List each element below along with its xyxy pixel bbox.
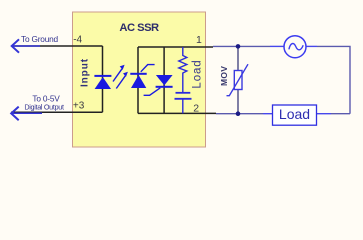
svg-text:Digital Output: Digital Output <box>24 103 64 112</box>
MOV branch wire <box>237 46 239 113</box>
arrow To Ground <box>12 39 40 52</box>
LED D1 (input opto emitter) <box>94 75 111 89</box>
wire: main SCR branch vertical x=164 <box>163 47 165 113</box>
svg-text:Load: Load <box>279 106 310 122</box>
wire: top rail to right corner and right-side vertical <box>317 46 350 113</box>
wire: load box left lead <box>263 113 273 115</box>
wire: photo-SCR branch vertical x=138 <box>137 47 139 113</box>
wire: AC source left lead <box>270 45 284 47</box>
wire: output bottom rail (inside SSR) <box>138 112 216 114</box>
arrow To 0-5V Digital Output <box>11 107 42 121</box>
varistor MOV <box>227 64 249 96</box>
wire: AC source right lead <box>306 45 317 47</box>
resistor R1 <box>179 47 187 92</box>
svg-text:Load: Load <box>191 59 203 88</box>
svg-text:AC SSR: AC SSR <box>119 22 159 34</box>
node junction top <box>236 44 241 49</box>
svg-text:1: 1 <box>196 34 202 46</box>
svg-text:To Ground: To Ground <box>21 34 59 44</box>
wire: output top rail (inside SSR) <box>138 46 213 48</box>
wire: top rail, pin 1 to MOV node <box>213 45 270 47</box>
load box <box>273 105 317 125</box>
wire: load box right lead <box>317 113 332 115</box>
wire: input top (terminal 4 to LED branch) <box>12 45 103 47</box>
wire: input bottom (terminal 3 to LED branch) <box>11 111 103 113</box>
svg-text:-4: -4 <box>73 35 82 46</box>
svg-text:Input: Input <box>79 58 90 87</box>
wire: bottom rail, pin 2 to load <box>216 113 263 115</box>
svg-text:+3: +3 <box>73 100 85 111</box>
capacitor C1 <box>175 93 192 99</box>
photo-SCR Q1 <box>130 65 154 88</box>
main SCR Q2 <box>144 75 173 95</box>
svg-text:MOV: MOV <box>219 66 229 86</box>
wire: bottom rail to right corner <box>331 113 350 115</box>
AC source V1 <box>284 36 306 58</box>
wire: capacitor C1 bottom lead <box>182 99 184 113</box>
svg-text:2: 2 <box>193 103 199 115</box>
wire: input vertical (LED branch x=102.5) <box>102 46 104 112</box>
light arrows (opto coupling) <box>113 65 128 89</box>
AC SSR module body (yellow box) <box>73 12 206 147</box>
node junction bottom <box>236 111 241 116</box>
